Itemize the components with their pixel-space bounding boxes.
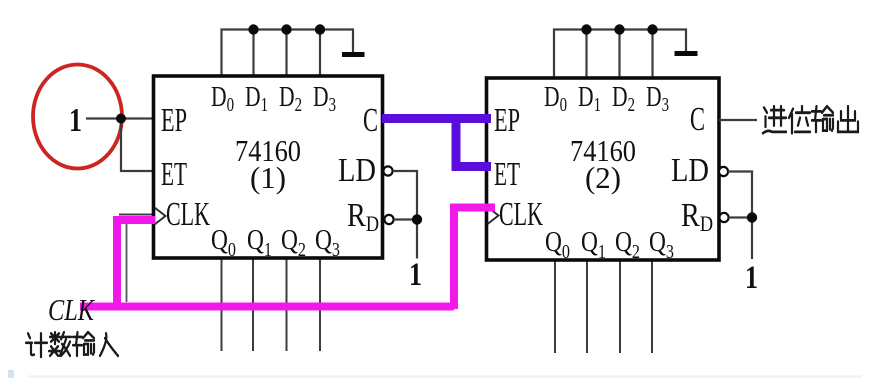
wire under CLK highlight U1	[126, 222, 128, 302]
junction dot RD net U1	[412, 214, 422, 224]
wire 1 to EP	[86, 117, 154, 119]
出	[838, 106, 858, 132]
svg-text:CLK: CLK	[166, 196, 210, 233]
进	[763, 106, 786, 133]
faint divider bottom	[28, 375, 862, 377]
wire C output U2	[719, 119, 757, 121]
junction dots on U2 bus	[581, 24, 657, 34]
svg-text:EP: EP	[494, 102, 520, 139]
wire junction to ET	[121, 119, 154, 172]
入	[100, 333, 118, 355]
svg-text:(1): (1)	[250, 160, 286, 195]
svg-text:LD: LD	[671, 152, 709, 189]
计	[26, 333, 47, 357]
wire top bus U1	[222, 30, 354, 78]
wire Q0-Q3 outputs U2	[555, 260, 652, 353]
wire Q0-Q3 outputs U1	[222, 258, 321, 351]
svg-text:1: 1	[745, 260, 758, 296]
输	[812, 106, 833, 132]
U1 LD bubble	[383, 166, 392, 175]
label 进位输出 (carry output)	[763, 106, 858, 133]
svg-text:CLK: CLK	[48, 292, 96, 327]
svg-text:LD: LD	[338, 152, 376, 189]
junction dot RD net U2	[747, 212, 757, 222]
数	[49, 332, 71, 356]
op 74160 (1) box U1	[154, 76, 383, 258]
wire LD/RD to 1 (U1)	[393, 171, 417, 259]
U1 RD bubble	[384, 215, 393, 224]
svg-text:C: C	[690, 101, 705, 138]
U2 CLK triangle	[488, 207, 499, 224]
U2 LD bubble	[719, 167, 728, 176]
U2 RD bubble	[719, 213, 728, 222]
label 计数输入 (count input)	[26, 332, 118, 357]
junction dot	[116, 114, 126, 124]
red circle highlight	[33, 65, 122, 169]
op 74160 (2) box U2	[487, 78, 720, 260]
U1 CLK triangle	[155, 208, 166, 225]
svg-text:ET: ET	[161, 156, 187, 193]
ground (U1 bus)	[342, 52, 365, 57]
输	[73, 332, 94, 356]
svg-text:ET: ET	[494, 156, 520, 193]
svg-text:(2): (2)	[585, 160, 621, 195]
位	[789, 106, 810, 133]
wire LD/RD to 1 (U2)	[728, 172, 752, 260]
wire CLK highlight, magenta	[80, 208, 495, 310]
junction dots on U1 bus	[248, 24, 325, 34]
ground (U2 bus)	[675, 51, 698, 56]
wire carry highlight C(1) to EP/ET(2), purple	[382, 116, 491, 167]
svg-text:CLK: CLK	[499, 196, 543, 233]
wire top bus U2	[554, 30, 686, 80]
svg-text:EP: EP	[161, 102, 187, 139]
svg-text:1: 1	[409, 257, 422, 293]
svg-text:1: 1	[69, 102, 82, 139]
svg-text:C: C	[363, 102, 378, 139]
wire CLK stub U1	[119, 214, 154, 216]
